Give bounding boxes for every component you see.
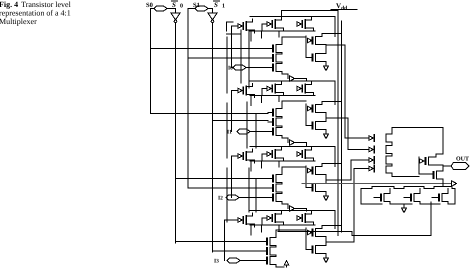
svg-text:Multiplexer: Multiplexer — [0, 17, 37, 26]
svg-text:S: S — [214, 1, 218, 9]
svg-text:S: S — [172, 1, 176, 9]
svg-text:I0: I0 — [228, 66, 233, 72]
svg-text:0: 0 — [180, 4, 183, 10]
svg-text:I2: I2 — [218, 196, 223, 202]
svg-text:I3: I3 — [214, 259, 219, 265]
svg-text:S0: S0 — [146, 2, 153, 9]
svg-text:I1: I1 — [227, 130, 232, 136]
svg-text:1: 1 — [222, 4, 225, 10]
svg-text:S1: S1 — [193, 2, 200, 9]
svg-text:OUT: OUT — [456, 157, 469, 163]
